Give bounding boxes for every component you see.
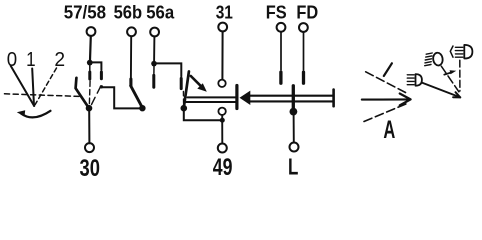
headlamp icon 1 (low beam, solid position) (407, 75, 414, 85)
svg-text:30: 30 (80, 156, 100, 182)
contact circle 31 (218, 80, 225, 87)
terminal circle 56a (150, 28, 159, 37)
turn-lever sketch: upper dashed (366, 72, 406, 93)
wire 31 stem (221, 32, 223, 80)
push rod arrowhead (240, 91, 251, 105)
terminal circle 31 (218, 23, 227, 32)
wire 57/58 stem (89, 36, 92, 61)
headlamp lever dashed to icon 3 (459, 60, 461, 91)
node junction at 49 stem (220, 118, 225, 123)
contact circle 49 (218, 108, 225, 115)
svg-text:56a: 56a (146, 2, 174, 23)
svg-text:31: 31 (216, 3, 233, 23)
dimmer lever (184, 72, 189, 108)
wire 56a junction to dimmer contact (154, 63, 181, 76)
position dashed horizontal line (5, 94, 80, 97)
contact prong left (57) (89, 65, 91, 71)
node dot L (290, 108, 298, 116)
contact blob FS (279, 72, 282, 83)
push rod T-bar (235, 86, 238, 109)
pivot node dimmer (181, 105, 188, 112)
headlamp lever dashed to icon 2 (441, 66, 459, 92)
position line 1 (32, 69, 34, 106)
svg-text:1: 1 (26, 47, 35, 70)
small arrow (spring return) (444, 72, 452, 74)
dashed contact line (dimmer) (182, 92, 184, 104)
turn-lever sketch: momentary tick (384, 63, 392, 76)
push rod end bar (332, 90, 335, 107)
turn-lever sketch: solid arrow (362, 98, 410, 100)
annotation arrow (push direction) (191, 76, 201, 86)
push rod left (double line) (188, 96, 236, 98)
wire to contact prong right (58) (90, 62, 102, 70)
wire right contact to 56b lever dot (101, 87, 139, 108)
wire pivot to terminal 30 (88, 110, 90, 143)
pivot node of main switch (86, 105, 93, 112)
push rod right (double line) (250, 95, 332, 97)
dashed contact line diagonal (pivot to right prong) (92, 86, 101, 105)
svg-text:A: A (383, 117, 395, 144)
terminal circle FD (299, 23, 308, 32)
wire 49 stem (221, 115, 223, 143)
terminal circle FS (277, 23, 286, 32)
node junction 57/58 (87, 60, 93, 66)
svg-text:FS: FS (266, 2, 287, 23)
terminal circle 56b (127, 27, 136, 36)
svg-text:56b: 56b (114, 2, 143, 23)
lever 56b (131, 86, 143, 108)
turn-lever sketch: lower dashed (364, 104, 406, 122)
headlamp icon 2 (upper-left, dashed position) (425, 53, 433, 66)
wire dimmer pivot to 49 stem (184, 110, 223, 120)
headlamp icon 3 (top, dashed position) (450, 46, 453, 57)
dashed contact line vertical (left prong to pivot) (88, 81, 91, 104)
headlamp lever solid with arrowhead (422, 83, 460, 98)
svg-text:L: L (288, 155, 298, 180)
svg-text:57/58: 57/58 (64, 2, 107, 23)
contact blob FD (302, 72, 305, 83)
terminal circle 30 (85, 143, 94, 152)
position line 0 (11, 66, 35, 106)
terminal circle L (290, 143, 299, 152)
wiper arm of main switch (76, 78, 89, 108)
wire FD stem (303, 32, 305, 70)
terminal circle 49 (218, 144, 227, 153)
contact blob 56b (129, 79, 132, 86)
wire L stem (293, 113, 295, 143)
position line 2 (dashed) (35, 68, 57, 105)
svg-text:49: 49 (213, 155, 233, 181)
wire 56a stem (153, 37, 155, 62)
node junction 56a (151, 61, 157, 67)
terminal circle 57/58 (87, 27, 96, 36)
node small dot below right contact (100, 85, 103, 88)
contact blob dimmer left (180, 78, 183, 88)
svg-text:FD: FD (296, 2, 318, 23)
contact prong right (58) (100, 72, 103, 79)
contact prong 56a (153, 66, 155, 74)
rotation arc arrow (21, 111, 51, 118)
moving contact bar FS/FD (292, 86, 295, 109)
wire 56b stem (130, 36, 132, 78)
wire FS stem (280, 32, 282, 70)
pivot node 56b (139, 105, 145, 111)
